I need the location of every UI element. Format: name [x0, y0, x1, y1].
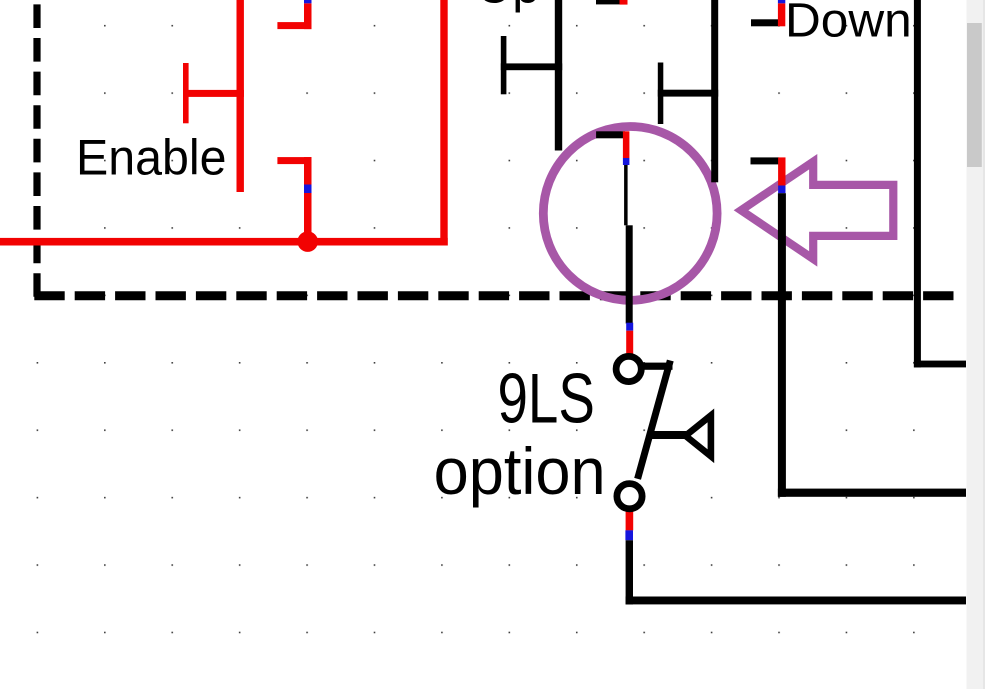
wire black horizontal bottom	[626, 597, 966, 605]
wire black to switch	[626, 225, 633, 323]
wire red horizontal bus	[0, 238, 448, 246]
wire black rail far right	[914, 0, 921, 367]
wire red left rail	[237, 0, 244, 192]
pin tip blue upper stub	[304, 0, 312, 3]
wire black horizontal middle right	[778, 489, 966, 497]
junction node dot	[297, 231, 318, 252]
red stub upper horizontal wire	[277, 22, 311, 29]
wire black thin selected	[624, 165, 628, 225]
switch link to lever	[640, 363, 673, 370]
contact Enable pole bar	[183, 63, 189, 123]
pin red below switch	[626, 506, 634, 530]
svg-text:Down: Down	[785, 0, 912, 47]
pin red top stub	[620, 0, 628, 5]
black stub arrow-target horizontal wire	[751, 157, 780, 164]
pin pip blue lower stub	[304, 185, 312, 194]
annotation arrow	[741, 162, 893, 259]
scrollbar track	[967, 0, 984, 689]
red stub lower horizontal wire	[277, 157, 311, 164]
black stub circled horizontal wire	[596, 131, 625, 138]
pip blue above switch	[626, 323, 633, 331]
black stub top horizontal wire	[596, 0, 621, 4]
contact Enable horizontal wire	[183, 90, 244, 97]
wire black rail Up column	[555, 0, 562, 151]
dashed region boundary vertical	[33, 4, 40, 297]
switch lever	[638, 361, 671, 479]
pin red Down stub	[778, 3, 785, 26]
contact Down-row pole bar	[658, 63, 664, 125]
switch 9LS top terminal	[616, 356, 641, 381]
switch actuator triangle	[686, 415, 711, 456]
pin red arrow-target stub	[778, 157, 785, 185]
contact Up pole bar	[501, 36, 507, 94]
pin pip blue arrow-target stub	[778, 186, 785, 194]
wire black rail Down-row	[711, 0, 718, 182]
pin tip blue Down stub	[778, 0, 785, 3]
pin pip blue below switch	[625, 530, 633, 540]
wire red from pip to junction	[304, 193, 312, 242]
dashed region boundary horizontal	[34, 291, 956, 300]
svg-text:Up: Up	[477, 0, 540, 13]
pin red above switch	[626, 331, 633, 355]
scrollbar divider	[983, 0, 985, 689]
contact Up horizontal wire	[501, 63, 562, 70]
pin red circled stub	[623, 131, 630, 158]
wire red right rail	[440, 0, 447, 246]
wire black below switch vertical	[626, 540, 633, 604]
contact Down-row horizontal wire	[658, 90, 718, 97]
wire black horizontal top right	[914, 361, 966, 368]
svg-text:Enable: Enable	[76, 130, 227, 186]
svg-text:9LS: 9LS	[498, 360, 595, 438]
annotation circle	[543, 126, 717, 300]
svg-text:option: option	[434, 434, 606, 509]
switch actuator link	[649, 431, 686, 439]
wire black long vertical right	[778, 193, 786, 497]
pin pip blue circled stub	[623, 158, 630, 165]
black stub Down horizontal wire	[751, 19, 780, 26]
pin red upper stub	[304, 3, 312, 29]
switch 9LS bottom terminal	[617, 484, 642, 509]
scrollbar thumb	[967, 23, 982, 167]
pin red lower stub	[304, 157, 312, 184]
